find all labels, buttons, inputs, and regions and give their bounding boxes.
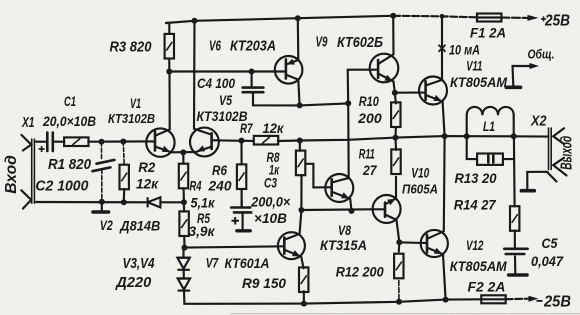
svg-text:R3 820: R3 820 (110, 40, 152, 56)
svg-text:С4 100: С4 100 (197, 75, 235, 91)
svg-text:R2: R2 (138, 159, 155, 175)
svg-text:F1 2А: F1 2А (470, 26, 506, 41)
svg-text:П605А: П605А (402, 181, 438, 196)
svg-text:С2 1000: С2 1000 (35, 179, 88, 195)
svg-text:КТ601А: КТ601А (225, 256, 270, 271)
svg-text:R1 820: R1 820 (48, 157, 91, 173)
svg-text:3,9к: 3,9к (189, 223, 216, 239)
svg-text:С5: С5 (542, 235, 558, 251)
svg-text:L1: L1 (483, 119, 495, 134)
svg-text:25В: 25В (543, 294, 571, 311)
svg-text:F2 2А: F2 2А (468, 279, 506, 295)
svg-text:V7: V7 (206, 255, 219, 271)
svg-text:V5: V5 (219, 92, 232, 108)
svg-text:X1: X1 (21, 115, 34, 131)
svg-text:Д220: Д220 (114, 275, 151, 291)
svg-text:12к: 12к (263, 120, 285, 136)
svg-text:R7: R7 (240, 120, 253, 136)
svg-text:R13 20: R13 20 (455, 170, 497, 186)
svg-text:КТ3102В: КТ3102В (108, 111, 155, 126)
svg-text:V8: V8 (338, 222, 351, 238)
svg-text:240: 240 (208, 178, 232, 194)
svg-text:200: 200 (357, 111, 382, 126)
svg-text:V9: V9 (316, 35, 328, 51)
svg-text:×10В: ×10В (254, 211, 287, 226)
svg-text:200,0×: 200,0× (250, 194, 290, 209)
svg-text:R12 200: R12 200 (336, 265, 384, 280)
svg-text:R9 150: R9 150 (242, 275, 286, 291)
svg-text:КТ203А: КТ203А (230, 38, 276, 54)
svg-text:R14 27: R14 27 (454, 197, 497, 213)
svg-text:Общ.: Общ. (528, 47, 555, 62)
svg-text:Вход: Вход (3, 155, 20, 194)
svg-text:V12: V12 (466, 238, 484, 253)
svg-text:V2: V2 (100, 217, 113, 233)
svg-text:КТ315А: КТ315А (320, 237, 367, 253)
svg-text:R11: R11 (359, 147, 375, 162)
svg-text:С1: С1 (64, 93, 76, 109)
svg-text:20,0×10В: 20,0×10В (42, 113, 96, 129)
svg-text:0,047: 0,047 (531, 253, 564, 269)
svg-text:25В: 25В (544, 13, 570, 30)
svg-text:V11: V11 (466, 59, 482, 74)
svg-text:V3,V4: V3,V4 (123, 256, 155, 272)
svg-text:5,1к: 5,1к (191, 195, 216, 211)
svg-text:V1: V1 (130, 95, 141, 111)
svg-text:V10: V10 (411, 166, 429, 181)
svg-text:12к: 12к (136, 176, 159, 192)
svg-text:10 мА: 10 мА (449, 43, 480, 58)
svg-text:С3: С3 (264, 176, 277, 191)
svg-text:Д814В: Д814В (119, 218, 160, 234)
svg-text:R6: R6 (212, 162, 227, 178)
svg-text:R4: R4 (190, 178, 202, 194)
svg-text:КТ805АМ: КТ805АМ (450, 75, 508, 90)
svg-text:Выход: Выход (559, 136, 576, 170)
svg-text:X2: X2 (530, 114, 546, 130)
svg-text:КТ805АМ: КТ805АМ (450, 259, 508, 274)
svg-text:R10: R10 (359, 94, 379, 109)
svg-text:27: 27 (362, 163, 378, 178)
svg-text:V6: V6 (209, 39, 222, 55)
svg-text:КТ602Б: КТ602Б (337, 35, 383, 51)
